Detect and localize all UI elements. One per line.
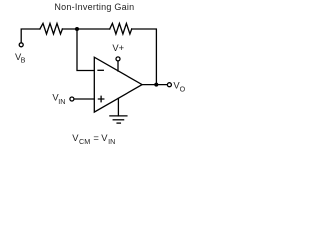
svg-text:IN: IN xyxy=(58,97,65,106)
svg-text:IN: IN xyxy=(108,137,115,146)
svg-text:O: O xyxy=(180,85,186,94)
svg-text:V+: V+ xyxy=(112,42,124,53)
svg-text:Non-Inverting Gain: Non-Inverting Gain xyxy=(54,2,134,12)
svg-text:B: B xyxy=(21,55,26,64)
svg-text:=: = xyxy=(93,132,99,143)
svg-text:CM: CM xyxy=(79,137,90,146)
